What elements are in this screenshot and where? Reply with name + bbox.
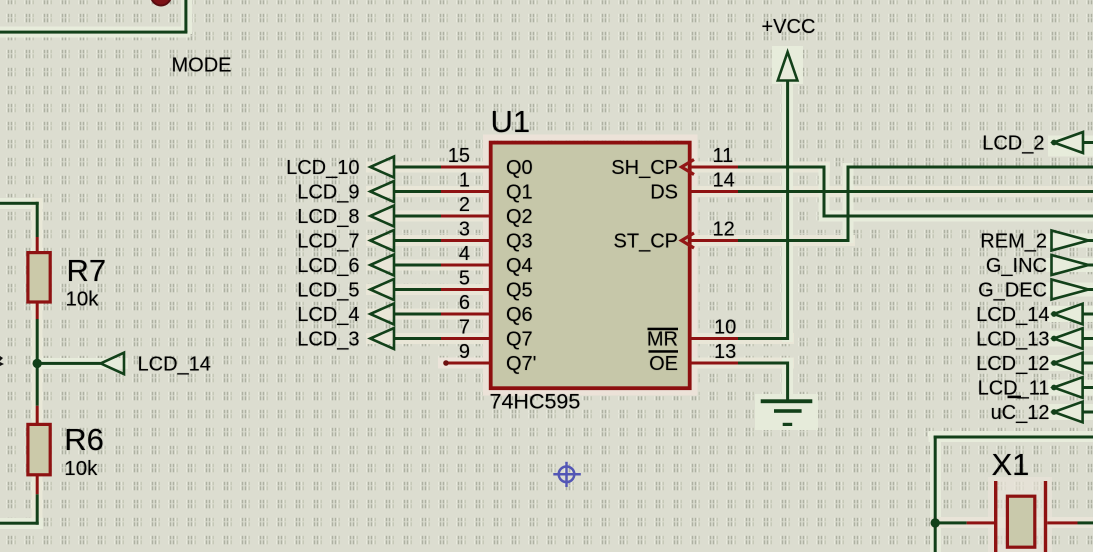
svg-text:LCD_3: LCD_3: [297, 329, 359, 351]
terminal LCD_14 right: [1051, 304, 1093, 325]
terminal LCD_10: [370, 157, 394, 178]
resistor R6: [28, 424, 50, 474]
svg-text:9: 9: [459, 341, 470, 363]
svg-text:3: 3: [459, 219, 470, 241]
crystal X1 body: [1007, 496, 1034, 547]
svg-text:LCD_5: LCD_5: [297, 280, 359, 302]
wire bottom-left horizontal: [0, 522, 39, 525]
terminal REM_2 (output): [1052, 231, 1093, 251]
wire ST_CP net to right edge: [847, 166, 1093, 169]
clipped text fragment at left edge: [0, 356, 4, 366]
svg-text:ST_CP: ST_CP: [614, 231, 678, 253]
svg-text:LCD_13: LCD_13: [976, 329, 1049, 351]
svg-text:LCD_2: LCD_2: [982, 133, 1044, 155]
svg-text:LCD_14: LCD_14: [976, 304, 1049, 326]
wire SH_CP jog down: [823, 166, 826, 218]
op IC U1 74HC595 body: [491, 143, 690, 389]
svg-text:X1: X1: [992, 447, 1030, 482]
wire LCD_3 to Q7: [394, 337, 442, 340]
terminal LCD_9: [370, 181, 394, 202]
svg-text:SH_CP: SH_CP: [611, 157, 678, 179]
OE overline: [649, 350, 679, 353]
pin R6.2: [36, 475, 39, 495]
svg-text:Q4: Q4: [506, 255, 533, 277]
svg-text:LCD_7: LCD_7: [297, 231, 359, 253]
terminal LCD_6: [370, 255, 394, 276]
pin U1.14 DS: [690, 190, 740, 193]
svg-text:10k: 10k: [64, 457, 98, 480]
terminal LCD_3: [370, 328, 394, 349]
wire MR to VCC: [738, 337, 789, 340]
svg-text:+VCC: +VCC: [762, 16, 816, 38]
svg-text:LCD_9: LCD_9: [297, 182, 359, 204]
wire junction to R6: [36, 363, 39, 405]
svg-text:G_INC: G_INC: [986, 255, 1047, 277]
svg-text:LCD_14: LCD_14: [138, 353, 211, 375]
wire LCD_9 to Q1: [394, 190, 442, 193]
svg-text:LCD_6: LCD_6: [297, 255, 359, 277]
terminal uC_12: [1051, 402, 1093, 423]
wire LCD_8 to Q2: [394, 215, 442, 218]
svg-text:4: 4: [459, 243, 470, 265]
svg-text:10k: 10k: [66, 288, 100, 311]
wire junction to X1: [935, 521, 967, 524]
svg-text:14: 14: [713, 170, 735, 192]
terminal LCD_5: [370, 279, 394, 300]
pin X1.2: [1047, 521, 1077, 524]
svg-text:Q3: Q3: [506, 231, 533, 253]
svg-text:OE: OE: [649, 353, 678, 375]
svg-text:Q7': Q7': [506, 353, 537, 375]
pin U1.5: [441, 288, 491, 291]
svg-text:DS: DS: [650, 182, 678, 204]
clock arrow on ST_CP: [682, 233, 695, 248]
svg-text:7: 7: [459, 317, 470, 339]
svg-text:1: 1: [459, 170, 470, 192]
wire LCD_7 to Q3: [394, 239, 442, 242]
junction node R7/R6/LCD_14: [33, 359, 42, 368]
terminal G_DEC (output): [1052, 280, 1093, 300]
pin R7.2: [36, 302, 39, 319]
svg-text:REM_2: REM_2: [980, 231, 1047, 253]
svg-text:R6: R6: [64, 422, 104, 457]
wire X1 net horizontal top: [934, 436, 1093, 439]
pin R7.1: [36, 237, 39, 253]
svg-text:74HC595: 74HC595: [490, 390, 581, 414]
svg-text:Q0: Q0: [506, 157, 533, 179]
svg-text:13: 13: [714, 341, 736, 363]
terminal G_INC (output): [1052, 255, 1093, 275]
wire X1 net vertical: [934, 436, 937, 552]
wire X1 right to edge: [1078, 521, 1093, 524]
svg-text:MODE: MODE: [172, 55, 232, 77]
svg-text:uC_12: uC_12: [991, 402, 1050, 424]
svg-text:Q5: Q5: [506, 280, 533, 302]
pin U1.2: [441, 215, 491, 218]
wire R6 bottom: [36, 494, 39, 524]
svg-text:LCD_10: LCD_10: [286, 157, 359, 179]
svg-text:12: 12: [713, 219, 735, 241]
wire junction to LCD_14 terminal: [37, 362, 100, 365]
wire ST_CP jog up: [847, 166, 850, 243]
pin U1.1: [441, 190, 491, 193]
wire into R7 top: [36, 202, 39, 237]
terminal LCD_12: [1051, 353, 1093, 374]
wire OE horizontal: [738, 362, 789, 365]
ground symbol: [761, 399, 813, 426]
button cap (clipped component at top): [151, 0, 171, 6]
pin X1.1: [967, 521, 995, 524]
power +VCC arrow symbol: [778, 52, 798, 81]
pin U1.13 OE: [690, 362, 740, 365]
svg-text:U1: U1: [491, 104, 531, 139]
wire DS net to right edge: [738, 190, 1093, 193]
clock arrow on SH_CP: [682, 160, 695, 175]
wire ST_CP horizontal: [738, 239, 850, 242]
pin R6.1: [36, 406, 39, 425]
wire +VCC vertical: [786, 81, 789, 341]
terminal LCD_4: [370, 304, 394, 325]
terminal LCD_13: [1051, 328, 1093, 349]
svg-text:15: 15: [448, 145, 470, 167]
svg-text:LCD_4: LCD_4: [297, 304, 359, 326]
svg-text:Q7: Q7: [506, 329, 533, 351]
svg-text:10: 10: [714, 317, 736, 339]
pin U1.4: [441, 264, 491, 267]
wire SH_CP horizontal: [738, 166, 826, 169]
wire top-left vertical: [184, 0, 187, 32]
pin 9 end blob: [443, 360, 449, 366]
uC_12 overline mark: [1008, 396, 1022, 399]
pin U1.11 SH_CP: [690, 166, 740, 169]
svg-text:LCD_8: LCD_8: [297, 206, 359, 228]
wire LCD_5 to Q5: [394, 288, 442, 291]
svg-text:2: 2: [459, 194, 470, 216]
svg-text:Q2: Q2: [506, 206, 533, 228]
pin U1.9 (Q7' unconnected stub): [444, 362, 491, 365]
wire OE down to ground: [786, 362, 789, 401]
svg-text:6: 6: [459, 292, 470, 314]
svg-text:R7: R7: [67, 253, 107, 288]
svg-text:11: 11: [713, 145, 734, 167]
svg-text:MR: MR: [647, 329, 678, 351]
svg-text:G_DEC: G_DEC: [978, 280, 1047, 302]
MR overline: [648, 328, 679, 331]
terminal LCD_11: [1051, 377, 1093, 398]
terminal LCD_2: [1051, 132, 1093, 153]
terminal LCD_14 (left): [101, 353, 124, 374]
crystal X1 left plate: [994, 481, 997, 552]
wire top-left horizontal (net MODE): [0, 31, 187, 34]
svg-text:LCD_12: LCD_12: [976, 353, 1049, 375]
crystal X1 right plate: [1044, 481, 1047, 552]
resistor R7: [28, 253, 50, 302]
wire R7 to junction: [36, 319, 39, 364]
wire SH_CP net to right edge: [823, 215, 1093, 218]
pin U1.10 MR: [690, 337, 740, 340]
origin marker (blue crosshair): [553, 462, 581, 487]
terminal LCD_8: [370, 206, 394, 227]
junction node X1: [931, 518, 940, 527]
pin U1.15: [441, 166, 491, 169]
wire left rail horizontal: [0, 202, 39, 205]
wire LCD_4 to Q6: [394, 313, 442, 316]
svg-text:Q1: Q1: [506, 182, 533, 204]
terminal LCD_7: [370, 230, 394, 251]
wire LCD_6 to Q4: [394, 264, 442, 267]
pin U1.12 ST_CP: [690, 239, 740, 242]
pin U1.7: [441, 337, 491, 340]
svg-text:Q6: Q6: [506, 304, 533, 326]
pin U1.6: [441, 313, 491, 316]
pin U1.3: [441, 239, 491, 242]
wire LCD_10 to Q0: [394, 166, 442, 169]
svg-text:5: 5: [459, 268, 470, 290]
